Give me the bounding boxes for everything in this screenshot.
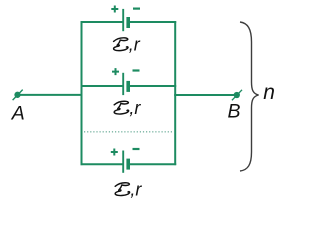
terminal B dot [234, 92, 240, 98]
battery cell 2 positive plate [122, 73, 124, 95]
battery cell 2 negative plate [126, 81, 130, 92]
label E,r cell 3 [115, 180, 142, 200]
brace for n cells [240, 22, 259, 171]
terminal B tick [232, 90, 242, 101]
plus sign cell 1 [111, 6, 118, 13]
svg-text:A: A [11, 102, 25, 124]
label E,r cell 2 [114, 98, 141, 118]
plus sign cell 3 [111, 149, 118, 156]
wire from right bus to terminal B [174, 94, 237, 96]
wire row1 right stub [129, 21, 177, 23]
right bus wire [174, 21, 176, 165]
battery cell 3 positive plate [122, 151, 124, 173]
terminal A dot [14, 92, 20, 98]
wire row1 left stub [81, 21, 123, 23]
plus sign cell 2 [112, 68, 119, 75]
battery cell 1 positive plate [122, 9, 124, 31]
svg-text:,r: ,r [129, 98, 141, 118]
wire row3 right stub [129, 163, 177, 165]
left bus wire [81, 21, 83, 165]
wire row3 left stub [81, 163, 123, 165]
minus sign cell 2 [133, 69, 140, 71]
minus sign cell 1 [133, 8, 140, 10]
terminal A tick [13, 90, 23, 101]
label E,r cell 1 [114, 35, 141, 55]
svg-text:,r: ,r [129, 35, 141, 55]
svg-text:B: B [228, 101, 241, 123]
battery cell 1 negative plate [126, 17, 130, 28]
battery cell 3 negative plate [126, 159, 130, 170]
wire row2 left stub [81, 85, 123, 87]
wire from terminal A to left bus [18, 94, 83, 96]
svg-text:n: n [263, 81, 275, 104]
svg-text:,r: ,r [130, 180, 142, 200]
wire row2 right stub [129, 85, 177, 87]
minus sign cell 3 [133, 148, 140, 150]
dotted wire row [84, 131, 173, 133]
